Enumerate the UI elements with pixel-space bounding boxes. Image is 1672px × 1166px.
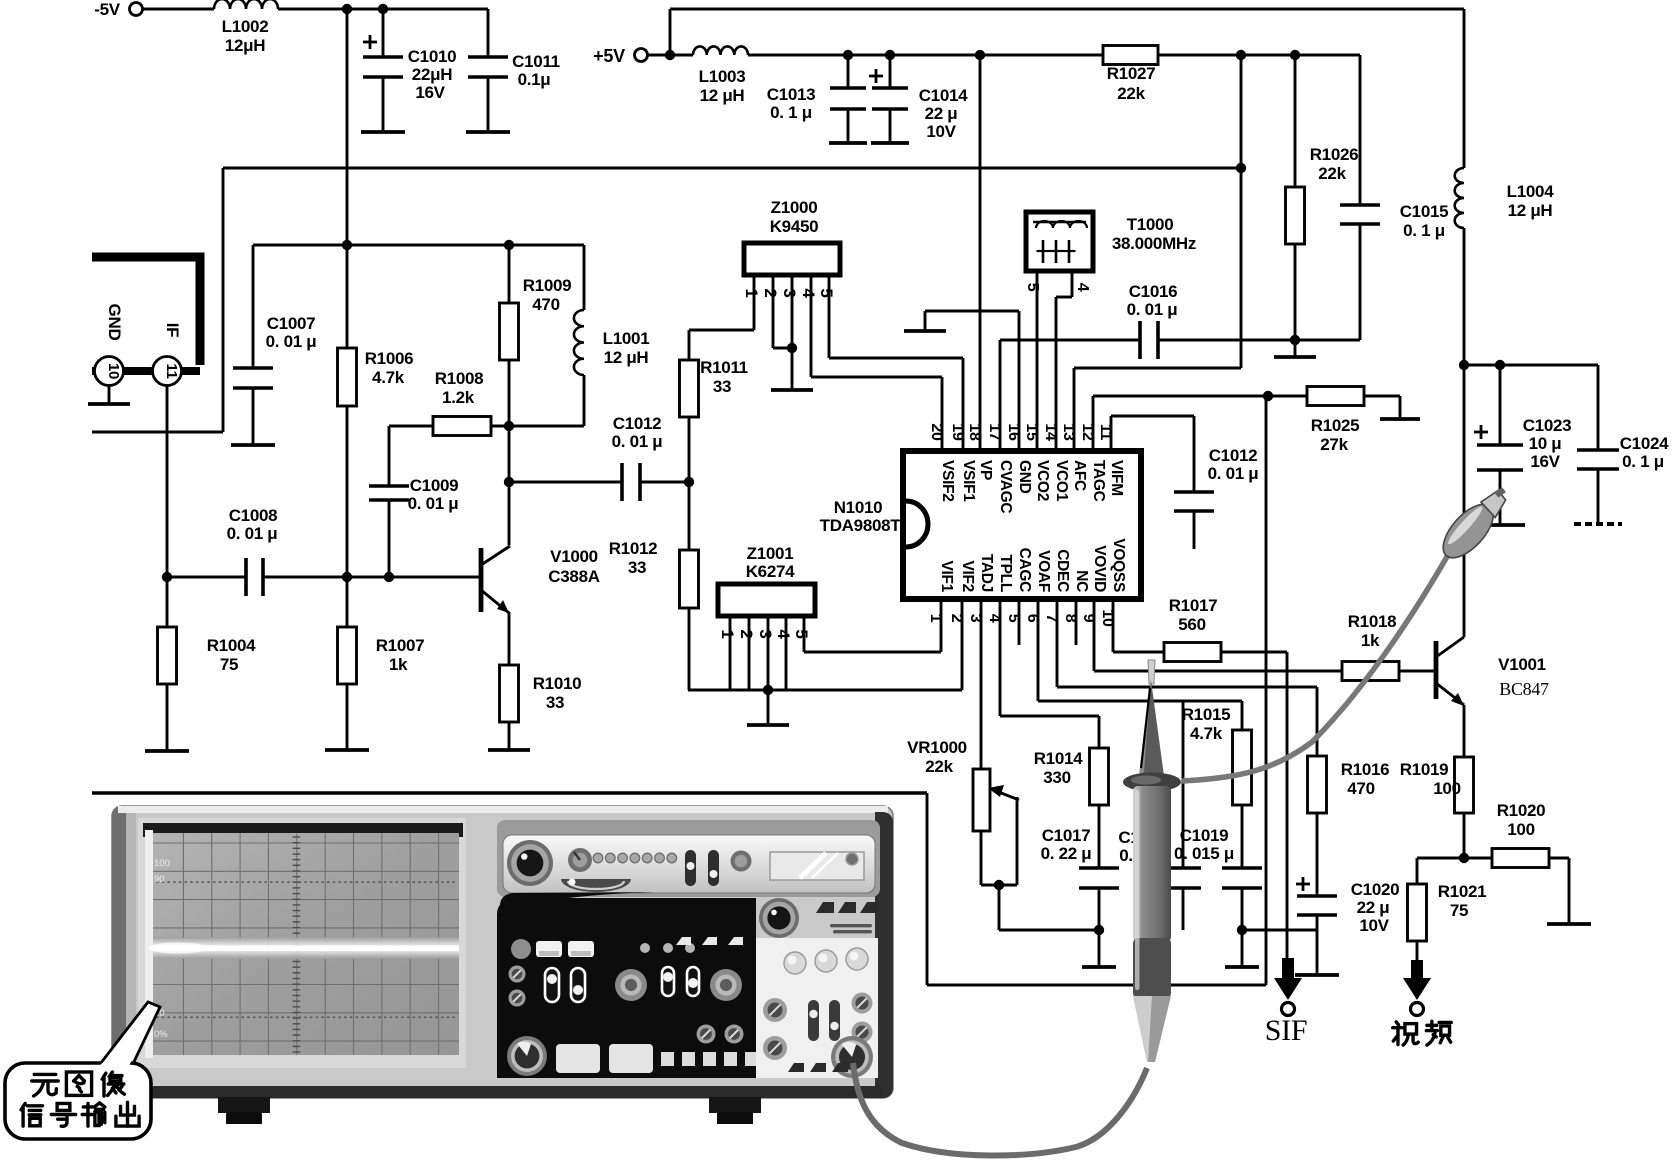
svg-text:Z1001: Z1001 xyxy=(747,544,794,563)
svg-text:R1012: R1012 xyxy=(609,539,658,558)
svg-text:NC: NC xyxy=(1073,570,1090,592)
svg-text:C1012: C1012 xyxy=(613,414,662,433)
svg-text:V1001: V1001 xyxy=(1498,655,1546,674)
svg-text:10 μ: 10 μ xyxy=(1529,434,1562,453)
svg-text:1k: 1k xyxy=(1361,631,1380,650)
svg-text:22k: 22k xyxy=(925,757,953,776)
svg-text:560: 560 xyxy=(1178,615,1205,634)
svg-text:VOQSS: VOQSS xyxy=(1110,538,1127,592)
svg-text:11: 11 xyxy=(163,363,180,378)
svg-text:16V: 16V xyxy=(1530,452,1560,471)
svg-text:R1020: R1020 xyxy=(1497,801,1546,820)
svg-text:2: 2 xyxy=(761,288,780,297)
svg-text:C1017: C1017 xyxy=(1042,826,1091,845)
svg-text:12μH: 12μH xyxy=(225,36,265,55)
svg-text:C1008: C1008 xyxy=(229,506,278,525)
svg-text:C1013: C1013 xyxy=(767,85,816,104)
svg-text:16V: 16V xyxy=(415,83,445,102)
svg-text:SIF: SIF xyxy=(1265,1014,1307,1047)
svg-text:75: 75 xyxy=(1450,901,1468,920)
svg-text:R1006: R1006 xyxy=(365,349,414,368)
svg-text:22 μ: 22 μ xyxy=(1357,898,1390,917)
svg-text:R1026: R1026 xyxy=(1310,145,1359,164)
svg-text:5: 5 xyxy=(817,288,836,297)
svg-text:17: 17 xyxy=(986,423,1003,441)
svg-text:Z1000: Z1000 xyxy=(771,198,818,217)
svg-text:R1004: R1004 xyxy=(207,636,256,655)
svg-text:12 μH: 12 μH xyxy=(700,86,745,105)
svg-text:33: 33 xyxy=(628,558,646,577)
svg-text:0. 01 μ: 0. 01 μ xyxy=(227,524,278,543)
svg-text:10V: 10V xyxy=(1359,916,1389,935)
svg-text:N1010: N1010 xyxy=(834,498,883,517)
svg-text:VSIF1: VSIF1 xyxy=(960,460,977,502)
svg-text:10V: 10V xyxy=(926,122,956,141)
svg-text:38.000MHz: 38.000MHz xyxy=(1112,234,1196,253)
svg-text:18: 18 xyxy=(966,423,983,441)
svg-text:VCO2: VCO2 xyxy=(1034,460,1051,501)
svg-text:16: 16 xyxy=(1005,423,1022,441)
svg-text:TDA9808T: TDA9808T xyxy=(820,516,902,535)
svg-text:3: 3 xyxy=(756,629,775,638)
svg-text:TPLL: TPLL xyxy=(997,554,1014,592)
svg-text:R1011: R1011 xyxy=(700,358,748,377)
svg-text:20: 20 xyxy=(928,423,945,441)
svg-text:C388A: C388A xyxy=(548,567,599,586)
svg-text:75: 75 xyxy=(220,655,238,674)
svg-text:R1019: R1019 xyxy=(1400,760,1449,779)
svg-text:33: 33 xyxy=(713,377,731,396)
svg-text:R1010: R1010 xyxy=(533,674,582,693)
svg-text:C1020: C1020 xyxy=(1351,880,1400,899)
svg-text:100: 100 xyxy=(154,858,170,869)
svg-text:0.: 0. xyxy=(1119,846,1133,865)
svg-text:CDEC: CDEC xyxy=(1054,549,1071,592)
svg-text:R1021: R1021 xyxy=(1438,882,1487,901)
svg-text:C1019: C1019 xyxy=(1180,826,1229,845)
svg-text:CAGC: CAGC xyxy=(1016,548,1033,593)
svg-text:BC847: BC847 xyxy=(1499,679,1549,699)
svg-text:AFC: AFC xyxy=(1071,460,1088,491)
svg-text:GND: GND xyxy=(105,304,124,341)
svg-text:TAGC: TAGC xyxy=(1090,460,1107,502)
svg-text:3: 3 xyxy=(780,288,799,297)
svg-text:VOAF: VOAF xyxy=(1035,550,1052,592)
svg-text:0.1μ: 0.1μ xyxy=(518,70,551,89)
svg-text:4: 4 xyxy=(1074,283,1091,292)
svg-text:12 μH: 12 μH xyxy=(1508,201,1553,220)
svg-text:C1010: C1010 xyxy=(408,47,457,66)
svg-text:0. 1 μ: 0. 1 μ xyxy=(770,103,812,122)
svg-text:15: 15 xyxy=(1023,423,1040,441)
svg-text:11: 11 xyxy=(1097,424,1114,441)
svg-text:22 μ: 22 μ xyxy=(925,104,958,123)
svg-text:R1018: R1018 xyxy=(1348,612,1397,631)
svg-text:0. 01 μ: 0. 01 μ xyxy=(1208,464,1259,483)
svg-text:CVAGC: CVAGC xyxy=(997,460,1014,513)
svg-text:GND: GND xyxy=(1016,460,1033,494)
svg-text:R1008: R1008 xyxy=(435,369,484,388)
svg-text:R1007: R1007 xyxy=(376,636,425,655)
svg-text:0. 01 μ: 0. 01 μ xyxy=(612,432,663,451)
svg-text:90: 90 xyxy=(154,874,165,885)
svg-text:0. 01 μ: 0. 01 μ xyxy=(408,494,459,513)
svg-text:VR1000: VR1000 xyxy=(907,738,967,757)
svg-text:33: 33 xyxy=(546,693,564,712)
svg-text:1.2k: 1.2k xyxy=(442,388,475,407)
svg-text:C1009: C1009 xyxy=(410,476,459,495)
svg-text:VOVID: VOVID xyxy=(1091,545,1108,592)
svg-text:VCO1: VCO1 xyxy=(1053,460,1070,502)
svg-text:0. 01 μ: 0. 01 μ xyxy=(1127,300,1178,319)
svg-text:1: 1 xyxy=(742,288,761,297)
svg-text:C1014: C1014 xyxy=(919,86,968,105)
svg-text:R1025: R1025 xyxy=(1311,416,1360,435)
svg-text:4: 4 xyxy=(799,288,818,298)
svg-text:TADJ: TADJ xyxy=(978,554,995,592)
svg-text:K9450: K9450 xyxy=(770,217,819,236)
svg-text:VP: VP xyxy=(977,460,994,480)
svg-text:-5V: -5V xyxy=(94,0,121,19)
svg-text:R1015: R1015 xyxy=(1182,705,1231,724)
svg-text:13: 13 xyxy=(1060,423,1077,441)
svg-text:T1000: T1000 xyxy=(1127,215,1174,234)
svg-text:IF: IF xyxy=(163,323,182,338)
svg-text:R1027: R1027 xyxy=(1107,64,1156,83)
svg-text:K6274: K6274 xyxy=(746,562,795,581)
svg-text:330: 330 xyxy=(1043,768,1070,787)
svg-text:C1024: C1024 xyxy=(1620,434,1669,453)
svg-text:0. 1 μ: 0. 1 μ xyxy=(1622,452,1664,471)
svg-text:470: 470 xyxy=(532,295,559,314)
svg-text:L1001: L1001 xyxy=(603,329,650,348)
svg-text:L1002: L1002 xyxy=(222,17,269,36)
svg-text:19: 19 xyxy=(949,423,966,441)
svg-text:VSIF2: VSIF2 xyxy=(939,460,956,502)
svg-text:L1004: L1004 xyxy=(1507,182,1555,201)
svg-text:1: 1 xyxy=(718,629,737,638)
svg-text:4.7k: 4.7k xyxy=(372,368,405,387)
svg-text:VIFM: VIFM xyxy=(1108,460,1125,496)
svg-text:14: 14 xyxy=(1042,423,1059,441)
svg-text:C1015: C1015 xyxy=(1400,202,1449,221)
svg-text:12: 12 xyxy=(1079,423,1096,441)
svg-text:1k: 1k xyxy=(389,655,408,674)
svg-text:R1014: R1014 xyxy=(1034,749,1083,768)
svg-text:10: 10 xyxy=(105,363,122,379)
svg-text:R1017: R1017 xyxy=(1169,596,1218,615)
svg-text:22μH: 22μH xyxy=(412,65,452,84)
svg-text:22k: 22k xyxy=(1117,84,1145,103)
svg-text:R1009: R1009 xyxy=(523,276,572,295)
svg-text:L1003: L1003 xyxy=(699,67,746,86)
svg-text:C1012: C1012 xyxy=(1209,446,1258,465)
svg-text:4.7k: 4.7k xyxy=(1190,724,1223,743)
svg-text:100: 100 xyxy=(1507,820,1534,839)
svg-text:12 μH: 12 μH xyxy=(604,348,649,367)
svg-text:V1000: V1000 xyxy=(550,547,598,566)
svg-text:2: 2 xyxy=(737,629,756,638)
svg-text:C1023: C1023 xyxy=(1523,416,1572,435)
svg-text:22k: 22k xyxy=(1318,164,1346,183)
svg-text:5: 5 xyxy=(792,629,811,638)
svg-text:4: 4 xyxy=(774,629,793,639)
svg-text:0. 015 μ: 0. 015 μ xyxy=(1174,844,1234,863)
svg-text:C1016: C1016 xyxy=(1129,282,1178,301)
svg-text:C1011: C1011 xyxy=(512,52,560,71)
svg-text:VIF2: VIF2 xyxy=(959,560,976,592)
svg-text:+5V: +5V xyxy=(593,46,625,66)
svg-text:5: 5 xyxy=(1024,283,1041,292)
svg-text:R1016: R1016 xyxy=(1341,760,1390,779)
svg-text:470: 470 xyxy=(1347,779,1374,798)
svg-text:C1007: C1007 xyxy=(267,314,316,333)
svg-text:VIF1: VIF1 xyxy=(938,560,955,592)
svg-text:0. 01 μ: 0. 01 μ xyxy=(266,332,317,351)
svg-text:27k: 27k xyxy=(1320,435,1348,454)
svg-text:0. 1 μ: 0. 1 μ xyxy=(1403,221,1445,240)
svg-text:100: 100 xyxy=(1433,779,1460,798)
svg-text:0. 22 μ: 0. 22 μ xyxy=(1041,844,1092,863)
svg-text:0%: 0% xyxy=(154,1029,168,1040)
